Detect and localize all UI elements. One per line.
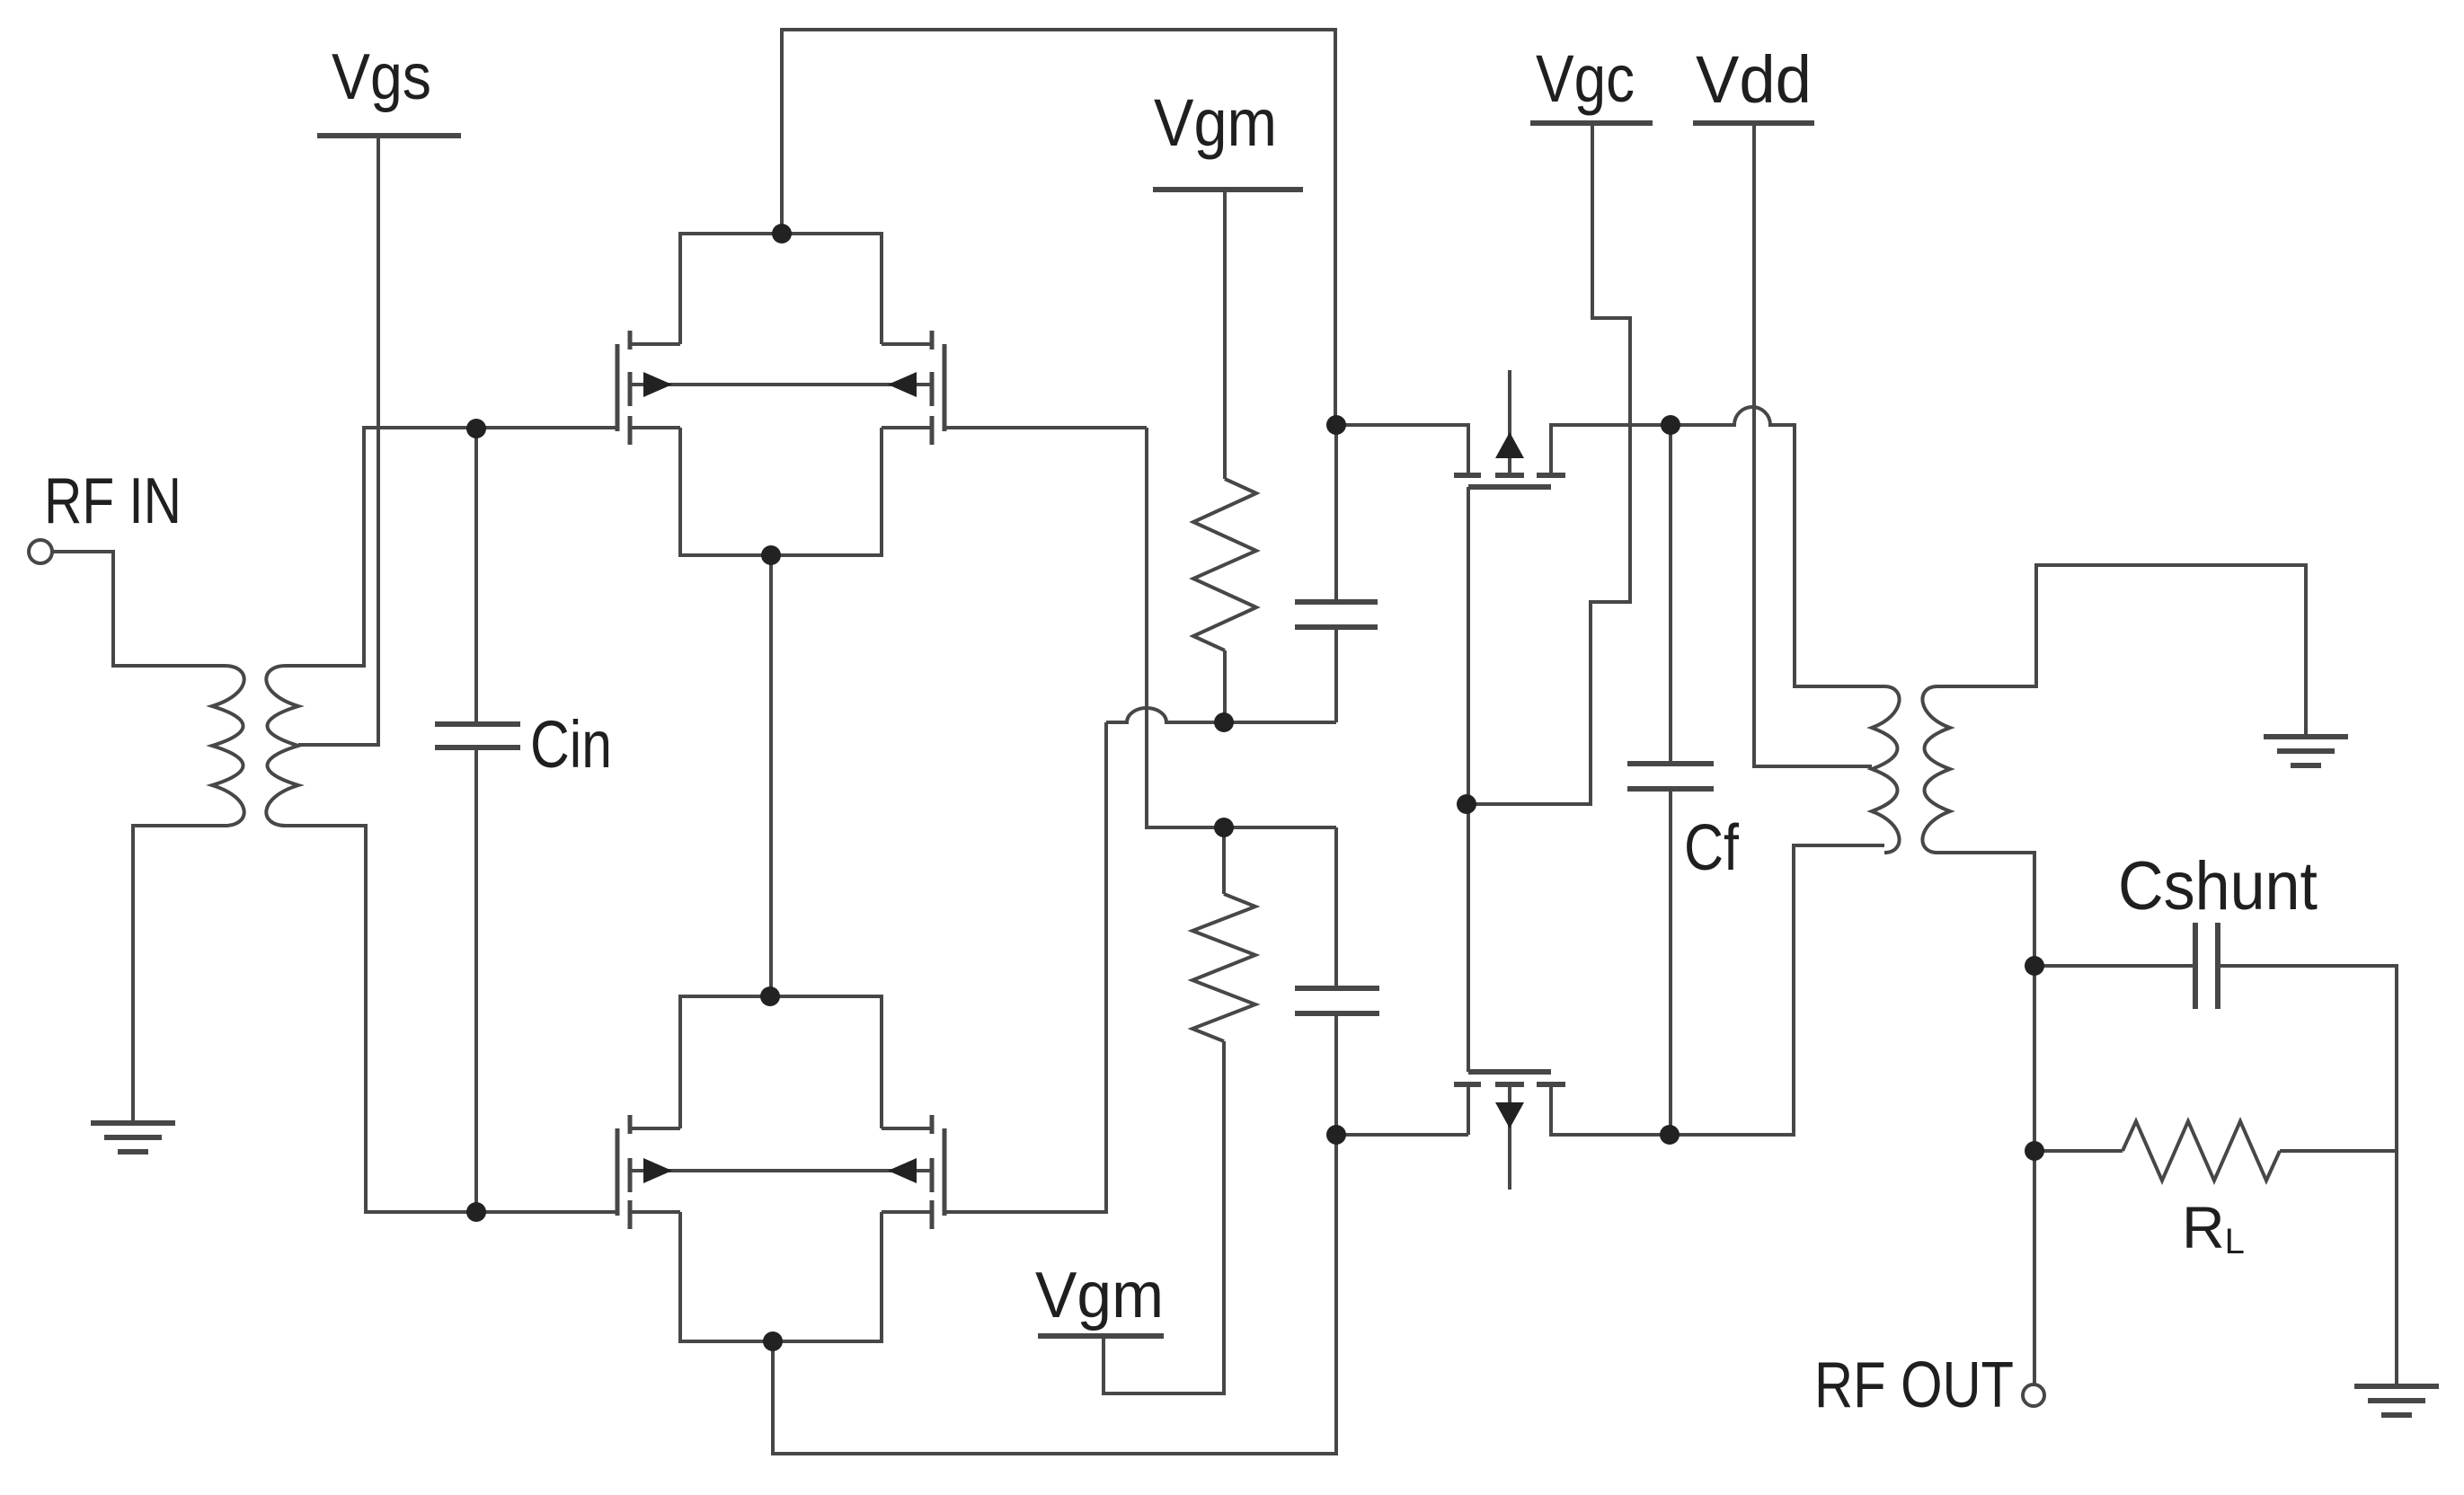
svg-text:Vgs: Vgs [332,41,431,113]
svg-text:Cshunt: Cshunt [2118,848,2318,924]
svg-text:Cf: Cf [1684,812,1740,884]
svg-text:RF IN: RF IN [44,465,182,537]
svg-text:Cin: Cin [530,707,612,782]
svg-text:Vgm: Vgm [1154,85,1277,160]
svg-text:RF OUT: RF OUT [1814,1349,2014,1421]
svg-text:Vgm: Vgm [1035,1260,1164,1331]
svg-text:Vgc: Vgc [1536,41,1635,116]
svg-text:Vdd: Vdd [1696,42,1812,117]
